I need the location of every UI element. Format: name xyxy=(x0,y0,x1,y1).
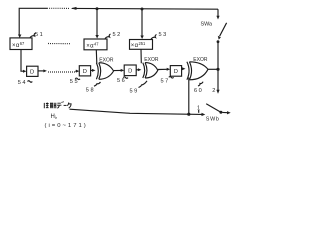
svg-text:D: D xyxy=(174,69,178,75)
leader tilde for label 5 4 xyxy=(28,81,33,83)
EXOR gate 5.8 xyxy=(96,63,98,80)
svg-text:6 0: 6 0 xyxy=(194,88,202,94)
wire: dotted line between multiplier 5.1 and 5.2 xyxy=(48,43,71,45)
leader squiggle for label 5 9 xyxy=(139,81,148,88)
node: junction of data line and EXOR feed xyxy=(187,113,190,116)
svg-text:×α251: ×α251 xyxy=(131,41,146,49)
svg-text:5 9: 5 9 xyxy=(130,88,138,94)
leader tick for contact label 1 xyxy=(198,110,200,113)
multiplier 5.2 box xyxy=(84,39,107,50)
svg-text:5 1: 5 1 xyxy=(35,32,43,38)
wire: dotted segment between D 5.4 and D 5.5 xyxy=(48,71,75,73)
svg-text:Hi,: Hi, xyxy=(51,114,58,120)
leader squiggle for label 5 8 xyxy=(94,82,101,86)
svg-text:×α47: ×α47 xyxy=(86,41,99,49)
svg-text:×α67: ×α67 xyxy=(12,41,25,49)
svg-text:5 6: 5 6 xyxy=(117,78,125,84)
svg-text:5 2: 5 2 xyxy=(113,32,121,38)
D flip-flop 5.7 xyxy=(170,66,181,77)
leader tilde for label 5 5 xyxy=(75,78,80,80)
wire: SWb output with arrow xyxy=(222,111,228,113)
svg-text:SWa: SWa xyxy=(201,22,212,28)
wire: top-left corner down to multiplier 5.1 xyxy=(19,8,47,35)
svg-text:D: D xyxy=(30,70,34,76)
node: junction on top wire above multiplier 5.2 xyxy=(96,7,99,10)
D flip-flop 5.6 xyxy=(124,65,136,76)
wire: D 5.5 output into EXOR 5.8 xyxy=(91,69,93,71)
leader squiggle for label 5 2 xyxy=(105,34,111,39)
wire: EXOR 5.9 output into D 5.7 xyxy=(158,68,167,70)
svg-text:EXOR: EXOR xyxy=(193,57,208,63)
multiplier 5.3 box xyxy=(130,40,153,50)
svg-text:5 8: 5 8 xyxy=(86,87,94,93)
wire: arrow into D 5.5 xyxy=(74,70,77,72)
wire: information data input line xyxy=(70,109,203,114)
wire: EXOR 5.8 output into D 5.6 xyxy=(114,69,122,71)
svg-text:D: D xyxy=(128,69,132,75)
EXOR gate 5.9 xyxy=(143,63,145,78)
wire: node down to output contact 2 with arrow xyxy=(217,69,219,90)
svg-text:2: 2 xyxy=(212,88,215,94)
wire: multiplier 5.1 output down and into D 5.4 xyxy=(21,50,23,72)
node: junction on top wire above multiplier 5.3 xyxy=(141,8,144,11)
wire: drop from top wire into multiplier 5.2 xyxy=(96,9,98,36)
wire: EXOR 6.0 output to node xyxy=(208,68,218,70)
leader tilde for label 5 6 xyxy=(123,77,128,79)
switch SWb blade xyxy=(206,104,220,112)
wire: top feedback dotted segment xyxy=(47,7,69,9)
wire: drop from top wire into multiplier 5.3 xyxy=(141,9,143,36)
svg-text:5 5: 5 5 xyxy=(70,79,78,85)
node: output junction xyxy=(216,68,219,71)
input name 情報データ (drawn glyphs) xyxy=(44,102,71,109)
svg-text:5 3: 5 3 xyxy=(159,32,167,38)
svg-text:D: D xyxy=(83,69,87,75)
svg-text:1: 1 xyxy=(197,106,200,112)
wire: node up to SWa blade pivot xyxy=(217,42,219,70)
D flip-flop 5.5 xyxy=(79,66,90,76)
wire: D 5.7 output into EXOR 6.0 xyxy=(181,68,184,70)
svg-text:EXOR: EXOR xyxy=(144,57,159,63)
wire: multiplier 5.2 output down into EXOR 5.8 xyxy=(95,50,98,64)
leader squiggle for label 6 0 xyxy=(198,82,203,86)
wire: multiplier 5.3 output down into EXOR 5.9 xyxy=(140,49,142,63)
EXOR gate 6.0 xyxy=(187,62,189,80)
svg-text:EXOR: EXOR xyxy=(99,58,114,64)
svg-text:5 4: 5 4 xyxy=(18,80,26,86)
wire: data feed up into EXOR 6.0 bottom input xyxy=(188,78,190,115)
arrowhead on top feedback wire pointing left xyxy=(71,7,77,10)
leader squiggle for label 5 3 xyxy=(151,35,157,40)
wire: D 5.6 output into EXOR 5.9 xyxy=(136,69,138,71)
wire: SWa fixed contact from top wire with down arrow xyxy=(217,9,219,16)
leader squiggle for label 5 1 xyxy=(30,33,36,38)
switch SWa blade xyxy=(220,23,227,36)
node: SWb pivot dot xyxy=(219,111,222,114)
svg-text:(i=0~171): (i=0~171) xyxy=(45,123,88,129)
svg-text:SWb: SWb xyxy=(206,117,220,123)
leader tilde for label 5 7 xyxy=(169,77,174,79)
multiplier 5.1 box xyxy=(10,38,32,50)
svg-text:5 7: 5 7 xyxy=(161,79,169,85)
D flip-flop 5.4 xyxy=(27,66,38,76)
wire: D 5.4 output arrow xyxy=(38,70,44,72)
node: SWa pivot dot xyxy=(217,40,220,43)
wire: top feedback line solid right portion xyxy=(72,7,218,10)
